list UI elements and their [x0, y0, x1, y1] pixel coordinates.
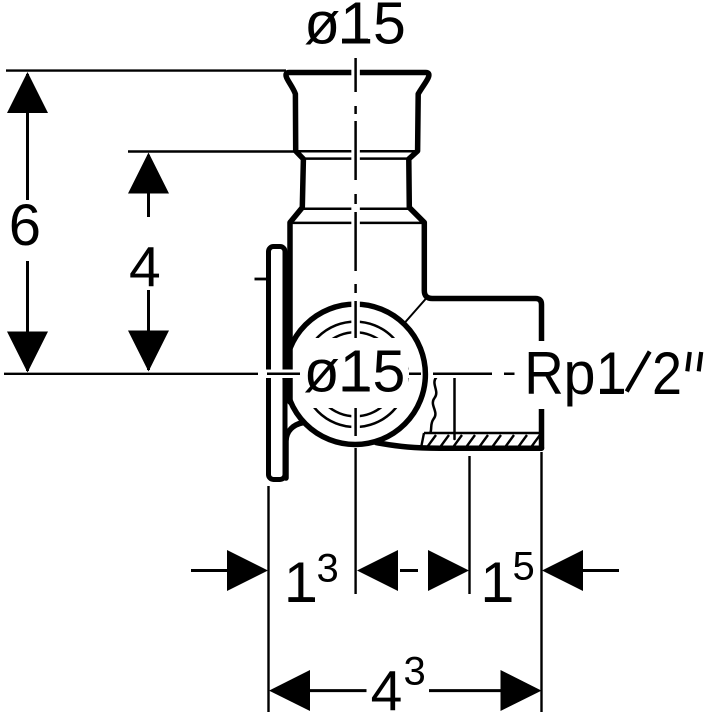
label ø15 top	[304, 0, 406, 57]
svg-text:ø15: ø15	[304, 339, 406, 405]
extension line top	[6, 69, 286, 71]
svg-text:6: 6	[9, 193, 41, 258]
svg-text:2: 2	[652, 340, 682, 407]
body shoulder edge	[290, 222, 424, 225]
svg-text:5: 5	[513, 544, 535, 588]
dim line	[147, 155, 150, 370]
svg-text:1: 1	[596, 340, 626, 407]
dim line	[26, 74, 29, 371]
boss outer circle	[285, 304, 425, 444]
text 1^5	[481, 544, 535, 614]
text 1^3	[284, 547, 339, 615]
ext pipe axis	[354, 448, 356, 594]
vertical centerline	[351, 58, 360, 436]
dimension 4	[128, 152, 294, 372]
socket step edge upper	[296, 150, 417, 153]
ext plate face	[267, 486, 269, 712]
middle dash	[400, 569, 418, 572]
label ø15 in boss	[300, 338, 409, 408]
svg-text:ø15: ø15	[304, 0, 406, 57]
press socket outline	[286, 73, 542, 479]
fitting body outline	[285, 73, 542, 479]
outlet bottom line	[376, 443, 542, 449]
break squiggle	[431, 377, 437, 433]
boss inner circle 1	[303, 322, 408, 427]
bottom extension lines	[269, 448, 542, 712]
arrow up	[128, 153, 169, 194]
dimension 4-3	[269, 650, 542, 720]
tube shoulder edge upper	[303, 208, 410, 211]
extension line at y=373.8 (shared for 6 and 4)	[4, 373, 258, 375]
arrow up	[7, 72, 48, 113]
svg-text:1: 1	[284, 551, 316, 615]
hatch section strip	[412, 433, 553, 450]
tail right	[582, 569, 619, 572]
wall plate	[269, 247, 286, 480]
svg-text:4: 4	[129, 236, 161, 300]
arrow down	[128, 331, 169, 372]
dimension 1-5	[481, 544, 620, 614]
dimension 1-3	[191, 547, 469, 615]
line right	[429, 689, 502, 692]
ext outlet face	[540, 452, 542, 712]
arrow down	[7, 332, 48, 373]
text 6	[8, 193, 42, 261]
arrow left	[269, 670, 310, 711]
plate tick	[255, 278, 268, 281]
dimension 6	[6, 71, 286, 373]
arrow left from outlet face	[542, 550, 583, 591]
arrow left from axis	[357, 550, 398, 591]
horizontal centerline	[264, 370, 516, 379]
tail left	[191, 569, 230, 572]
svg-text:3: 3	[404, 650, 426, 694]
socket step edge lower	[304, 157, 409, 160]
svg-text:R: R	[524, 340, 564, 407]
line left	[308, 689, 367, 692]
extension line	[128, 150, 294, 152]
text 4	[128, 217, 168, 300]
label Rp1/2"	[516, 340, 704, 409]
boss inner circle 2	[313, 332, 397, 416]
arrow right	[501, 670, 542, 711]
arrow right into plate face	[227, 550, 268, 591]
arrow right to thread ext	[428, 550, 469, 591]
tangent transition line	[405, 299, 426, 323]
svg-text:3: 3	[317, 547, 339, 591]
text 4^3	[371, 650, 426, 720]
svg-text:p: p	[564, 340, 596, 407]
ext thread end	[468, 456, 470, 594]
svg-text:1: 1	[481, 551, 513, 615]
thread depth line	[453, 377, 456, 439]
svg-text:4: 4	[371, 660, 403, 720]
